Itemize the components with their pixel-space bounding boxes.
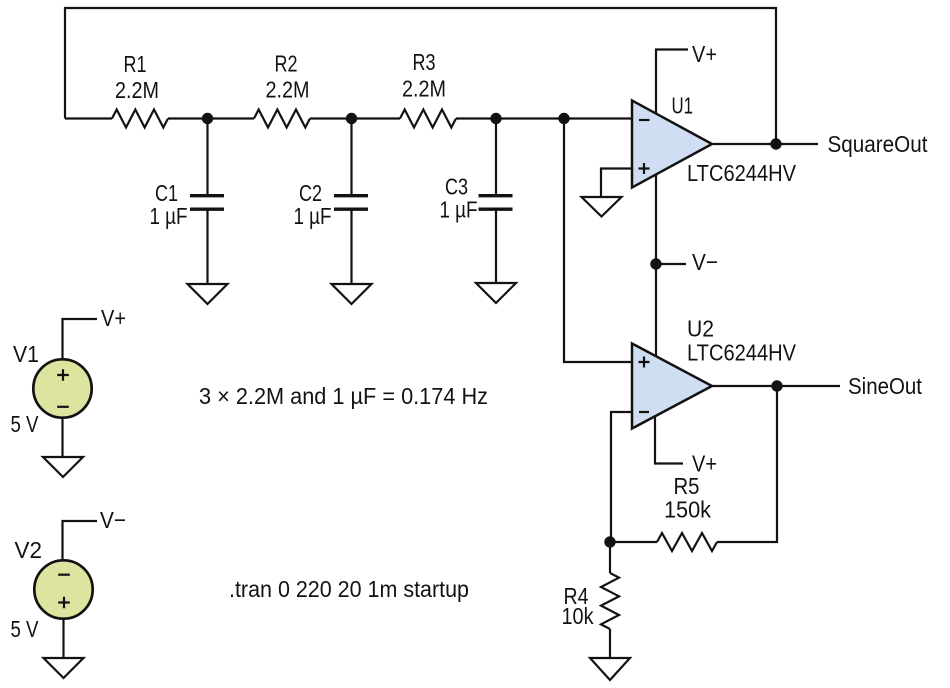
ground C3 (476, 283, 516, 303)
op-amp U2 (632, 344, 712, 429)
svg-text:2.2M: 2.2M (402, 76, 446, 102)
svg-text:1 µF: 1 µF (440, 197, 478, 223)
capacitor C1 (190, 119, 224, 285)
capacitor C2 (334, 119, 368, 285)
svg-text:V+: V+ (101, 305, 126, 331)
ground R4 (590, 658, 630, 680)
resistor R2 (254, 110, 310, 128)
resistor R5 (657, 533, 717, 551)
wire R5 left (610, 541, 657, 543)
svg-text:LTC6244HV: LTC6244HV (687, 160, 796, 186)
svg-text:V1: V1 (13, 341, 39, 367)
wire U1 plus input to ground (601, 169, 632, 198)
wire U1 output (712, 143, 818, 145)
node junction B (R2-R3, C2) (346, 113, 357, 124)
wire U1 V+ pin (656, 50, 688, 115)
wire main RC ladder segments (65, 117, 632, 119)
svg-text:R1: R1 (124, 51, 147, 77)
node junction R4-R5 (604, 536, 615, 547)
svg-text:.tran 0 220 20 1m startup: .tran 0 220 20 1m startup (229, 576, 469, 602)
svg-text:3 × 2.2M and 1 µF = 0.174 Hz: 3 × 2.2M and 1 µF = 0.174 Hz (199, 383, 488, 409)
node junction SineOut (771, 380, 782, 391)
node junction C (R3 out, C3) (490, 113, 501, 124)
svg-text:V2: V2 (15, 537, 43, 563)
ground V2 (44, 658, 84, 678)
svg-text:SquareOut: SquareOut (828, 131, 928, 157)
svg-text:2.2M: 2.2M (266, 77, 310, 103)
ground U1 (582, 197, 622, 217)
wire U2 noninverting tap (564, 119, 632, 363)
wire U2 V+ pin (655, 416, 683, 464)
svg-text:5 V: 5 V (11, 616, 39, 642)
voltage source V2 (34, 521, 97, 658)
wire U2 inverting input branch (611, 412, 632, 542)
svg-text:V−: V− (692, 249, 718, 275)
svg-text:10k: 10k (562, 603, 594, 629)
svg-text:2.2M: 2.2M (115, 77, 159, 103)
ground C1 (188, 284, 228, 304)
svg-text:V+: V+ (692, 41, 717, 67)
wire V- supply rail (655, 175, 657, 356)
capacitor C3 (479, 119, 513, 284)
resistor R1 (112, 110, 168, 128)
node junction D (tap to U2+) (558, 113, 569, 124)
node junction V- rail (650, 258, 661, 269)
svg-text:U2: U2 (687, 315, 714, 341)
svg-text:R5: R5 (674, 473, 700, 499)
resistor R3 (400, 110, 456, 128)
svg-text:V−: V− (100, 507, 126, 533)
wire U2 output (712, 385, 840, 387)
svg-text:U1: U1 (672, 93, 694, 119)
svg-text:LTC6244HV: LTC6244HV (687, 340, 796, 366)
ground V1 (43, 457, 83, 477)
svg-text:R3: R3 (413, 49, 436, 75)
ground C2 (332, 284, 372, 304)
svg-text:1 µF: 1 µF (294, 203, 332, 229)
voltage source V1 (33, 319, 97, 457)
op-amp U1 (632, 101, 712, 188)
wire SineOut feedback down (717, 386, 777, 542)
svg-text:150k: 150k (664, 497, 711, 523)
node junction SquareOut (770, 138, 781, 149)
wire V- label stub (656, 263, 686, 265)
svg-text:5 V: 5 V (11, 411, 39, 437)
svg-text:SineOut: SineOut (848, 373, 922, 399)
resistor R4 (601, 542, 619, 658)
svg-text:1 µF: 1 µF (150, 203, 188, 229)
wire feedback loop top (65, 8, 776, 144)
svg-text:R2: R2 (275, 51, 298, 77)
node junction A (R1-R2, C1) (202, 113, 213, 124)
